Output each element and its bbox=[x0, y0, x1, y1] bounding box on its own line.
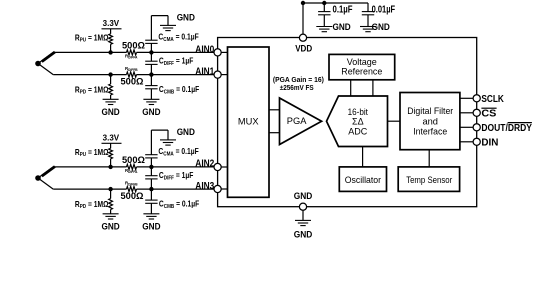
svg-text:VDD: VDD bbox=[295, 44, 312, 54]
svg-text:MUX: MUX bbox=[238, 116, 259, 126]
svg-text:AIN2: AIN2 bbox=[195, 159, 214, 170]
svg-text:GND: GND bbox=[102, 107, 121, 117]
svg-text:0.1µF: 0.1µF bbox=[333, 4, 353, 15]
svg-text:500Ω: 500Ω bbox=[122, 40, 145, 51]
svg-text:500Ω: 500Ω bbox=[121, 76, 144, 87]
svg-text:GND: GND bbox=[333, 22, 352, 32]
svg-text:GND: GND bbox=[142, 107, 161, 117]
svg-text:±256mV FS: ±256mV FS bbox=[280, 85, 314, 92]
svg-text:0.01µF: 0.01µF bbox=[372, 4, 396, 15]
svg-text:AIN0: AIN0 bbox=[195, 45, 214, 56]
svg-text:GND: GND bbox=[177, 12, 196, 22]
svg-text:GND: GND bbox=[372, 22, 391, 32]
svg-text:PGA: PGA bbox=[287, 116, 307, 126]
svg-text:Reference: Reference bbox=[341, 67, 382, 77]
svg-text:DOUT/DRDY: DOUT/DRDY bbox=[481, 123, 532, 134]
svg-text:AIN1: AIN1 bbox=[195, 67, 214, 78]
svg-text:3.3V: 3.3V bbox=[103, 18, 120, 28]
svg-text:Oscillator: Oscillator bbox=[345, 175, 381, 185]
svg-text:AIN3: AIN3 bbox=[195, 181, 214, 192]
svg-text:DIN: DIN bbox=[481, 137, 498, 148]
svg-text:16-bit: 16-bit bbox=[348, 107, 369, 117]
svg-text:ADC: ADC bbox=[348, 127, 368, 137]
svg-text:Temp Sensor: Temp Sensor bbox=[406, 175, 452, 185]
svg-text:GND: GND bbox=[294, 191, 313, 201]
svg-text:Digital Filter: Digital Filter bbox=[407, 106, 453, 116]
svg-text:ΣΔ: ΣΔ bbox=[352, 117, 364, 127]
svg-text:GND: GND bbox=[294, 229, 313, 239]
svg-text:(PGA Gain = 16): (PGA Gain = 16) bbox=[273, 77, 324, 84]
svg-text:SCLK: SCLK bbox=[481, 94, 504, 105]
svg-text:CS: CS bbox=[481, 108, 496, 119]
svg-text:Voltage: Voltage bbox=[347, 57, 377, 67]
svg-text:Interface: Interface bbox=[413, 127, 447, 137]
svg-text:and: and bbox=[422, 116, 438, 126]
